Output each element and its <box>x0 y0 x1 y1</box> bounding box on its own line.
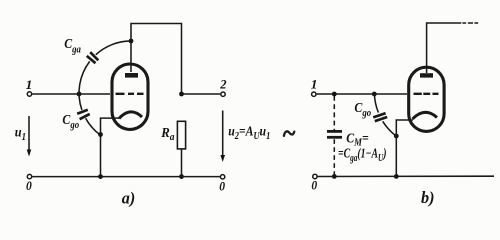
node cathode bottom junction b <box>394 174 399 179</box>
svg-text:u2=AUu1: u2=AUu1 <box>228 123 270 141</box>
tube b grid dashes <box>414 93 439 95</box>
supply dashes (top right) <box>462 22 478 24</box>
svg-text:Cgo: Cgo <box>354 101 371 120</box>
wire Ra bottom lead <box>181 149 183 177</box>
terminal 2 <box>221 92 225 96</box>
svg-text:1: 1 <box>311 77 318 91</box>
terminal 1 (a) <box>27 92 31 96</box>
wire arc grid middle segment <box>79 61 90 110</box>
wire anode lead a (up, over, down to output node) <box>131 24 182 95</box>
tube a envelope <box>112 64 148 129</box>
wire anode lead b <box>427 23 462 73</box>
node cathode / Cgo junction a <box>98 132 103 137</box>
node cathode bottom junction <box>98 174 103 179</box>
capacitor Cgo plates (b) <box>373 113 387 121</box>
svg-text:=Cga(1−AU): =Cga(1−AU) <box>338 146 387 163</box>
node anode junction a <box>129 39 134 44</box>
svg-text:0: 0 <box>311 178 317 193</box>
wire output to terminal 2 <box>182 93 221 95</box>
node Cgo arc junction b <box>372 92 377 97</box>
terminal 0 left (a) <box>27 174 31 178</box>
svg-text:u1: u1 <box>15 124 26 143</box>
svg-text:Cga: Cga <box>64 37 81 56</box>
bottom rail a <box>32 176 220 178</box>
svg-text:Ra: Ra <box>160 125 174 143</box>
capacitor CM dashed top lead <box>333 96 335 130</box>
node CM top junction <box>332 92 337 97</box>
node output junction a <box>179 92 184 97</box>
node CM bottom junction <box>332 174 337 179</box>
bottom rail b <box>318 175 495 177</box>
capacitor Cga plates <box>87 52 99 63</box>
svg-text:1: 1 <box>26 78 33 92</box>
arrow u2 <box>222 111 224 159</box>
wire input rail a <box>32 93 110 95</box>
arrow u1 <box>28 116 30 153</box>
wire cathode lead a <box>101 118 120 177</box>
resistor Ra <box>177 121 185 149</box>
node grid junction a <box>77 92 82 97</box>
terminal 1 (b) <box>312 92 316 96</box>
tube a grid dashes <box>116 93 144 95</box>
svg-text:0: 0 <box>219 179 225 194</box>
tube b envelope <box>409 67 444 131</box>
wire input rail b <box>316 93 407 95</box>
svg-text:Cgo: Cgo <box>62 113 79 132</box>
svg-text:0: 0 <box>26 179 32 194</box>
node Ra bottom junction <box>179 174 184 179</box>
tube a cathode <box>119 112 142 119</box>
svg-text:a): a) <box>122 188 135 207</box>
tilde separator <box>284 131 294 136</box>
tube b cathode <box>413 112 438 119</box>
tube a anode plate <box>125 73 138 78</box>
wire cathode lead b <box>396 120 413 177</box>
terminal 0 (b) <box>313 174 317 178</box>
capacitor Cgo plates (a) <box>77 110 90 120</box>
wire arc Cgo b upper segment <box>374 94 378 113</box>
wire arc grid-cathode segment <box>86 118 101 135</box>
terminal 0 right (a) <box>220 175 224 179</box>
svg-text:b): b) <box>421 188 434 207</box>
svg-text:2: 2 <box>219 78 227 92</box>
capacitor CM plates <box>327 131 342 137</box>
wire arc Cgo b lower segment <box>383 121 396 136</box>
node Cgo-cathode junction b <box>394 134 399 139</box>
capacitor CM dashed bottom lead <box>333 139 335 176</box>
wire arc grid-anode segment <box>96 41 131 55</box>
tube b anode plate <box>420 73 433 77</box>
